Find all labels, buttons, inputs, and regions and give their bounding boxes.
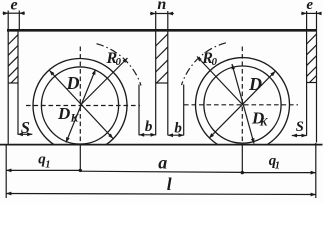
right drill hole dash-dot arc R0 xyxy=(182,43,226,85)
right circle vertical centerline xyxy=(241,47,243,145)
svg-text:D: D xyxy=(248,74,262,94)
dimension q1 right line xyxy=(242,172,315,174)
left wall hatch xyxy=(8,35,18,83)
svg-text:e: e xyxy=(11,0,18,14)
dimension n extension lines xyxy=(156,11,168,29)
label a xyxy=(158,153,167,173)
svg-text:0: 0 xyxy=(212,56,218,68)
top slab line xyxy=(7,29,317,32)
right D diameter line xyxy=(209,71,275,138)
bottom left extension line xyxy=(5,145,7,198)
right pipe outer circle D xyxy=(196,58,290,152)
dimension l line xyxy=(6,194,316,195)
svg-text:S: S xyxy=(296,119,304,135)
label DK right xyxy=(251,108,269,128)
left DK diameter line xyxy=(66,70,96,143)
dimension e left extension lines xyxy=(8,11,19,30)
svg-text:K: K xyxy=(70,113,80,125)
label l xyxy=(167,174,172,194)
dimension q1 left line xyxy=(6,169,80,171)
label n xyxy=(157,0,166,13)
svg-text:0: 0 xyxy=(116,56,122,68)
left wall right face xyxy=(17,29,19,135)
left b extension line (drill hole edge) xyxy=(138,85,140,136)
dimension n line xyxy=(150,13,174,15)
label DK left xyxy=(57,104,80,124)
label e right xyxy=(306,0,313,13)
label b left xyxy=(145,119,153,135)
label q1 right xyxy=(269,153,280,172)
dimension e right line xyxy=(301,12,321,14)
left circle horizontal centerline xyxy=(26,105,140,107)
right R0 radius line xyxy=(197,57,243,105)
label R0 left xyxy=(106,50,122,68)
svg-text:D: D xyxy=(57,104,70,123)
right pipe inner circle DK xyxy=(204,66,281,143)
middle wall left face xyxy=(155,29,157,135)
svg-text:D: D xyxy=(66,73,80,93)
junction dot left xyxy=(79,169,82,172)
left circle vertical centerline xyxy=(79,47,81,145)
dimension b right line xyxy=(168,134,184,136)
junction dot right xyxy=(241,171,244,174)
label S right xyxy=(296,119,304,135)
dimension S left line xyxy=(18,133,33,135)
right b extension line (drill hole edge) xyxy=(183,85,185,136)
left drill hole dash-dot arc R0 xyxy=(97,44,142,86)
dimension e left line xyxy=(3,12,25,14)
floor line xyxy=(0,144,323,146)
svg-text:S: S xyxy=(21,118,30,137)
bottom right extension line xyxy=(315,143,317,198)
svg-text:1: 1 xyxy=(45,159,50,170)
svg-text:e: e xyxy=(306,0,313,13)
label b right xyxy=(174,121,182,137)
svg-text:b: b xyxy=(174,121,182,137)
svg-text:b: b xyxy=(145,119,153,135)
label q1 left xyxy=(38,151,50,170)
right DK diameter line xyxy=(232,64,254,144)
right wall hatch bottom edge xyxy=(307,82,317,84)
label e left xyxy=(11,0,18,14)
middle wall hatch bottom edge xyxy=(156,82,168,84)
svg-text:K: K xyxy=(259,117,269,129)
svg-text:n: n xyxy=(157,0,166,13)
left pipe outer circle D xyxy=(33,59,127,153)
dimension b left line xyxy=(139,134,156,136)
label R0 right xyxy=(201,50,217,68)
dimension a line xyxy=(80,171,242,172)
middle wall right face xyxy=(167,29,169,135)
label D left xyxy=(66,73,80,93)
right wall hatch xyxy=(307,34,317,82)
left R0 radius line xyxy=(80,58,128,106)
right circle center extension below floor xyxy=(241,145,243,173)
right wall left face xyxy=(306,29,308,136)
left wall left face xyxy=(7,29,9,144)
left circle center extension below floor xyxy=(79,145,81,171)
svg-text:l: l xyxy=(167,174,172,194)
label D right xyxy=(248,74,262,94)
middle wall hatch xyxy=(156,34,168,83)
left pipe inner circle DK xyxy=(41,67,118,144)
left D diameter line xyxy=(50,71,114,139)
right wall right face xyxy=(316,29,318,143)
svg-text:a: a xyxy=(158,153,167,173)
left wall hatch bottom edge xyxy=(8,82,18,84)
label S left xyxy=(21,118,30,137)
dimension S right line xyxy=(292,135,307,137)
dimension e right extension lines xyxy=(307,11,317,29)
right circle horizontal centerline xyxy=(184,104,298,106)
svg-text:1: 1 xyxy=(275,161,280,172)
